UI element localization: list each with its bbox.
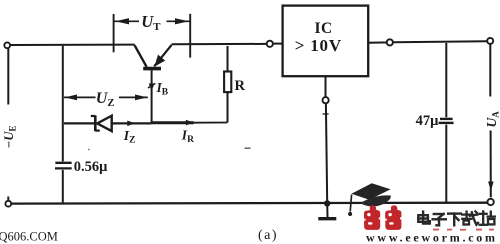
transistor Q1 collector lead [135,45,147,67]
logo graduation cap board [351,183,390,200]
svg-text:www.eeworm.com: www.eeworm.com [366,231,498,244]
node terminal right bottom [487,199,493,205]
dimension UZ right arrowhead [135,95,148,101]
speck artifact dash [245,147,251,149]
svg-text:(a): (a) [258,228,278,243]
wire dropper to zener and C1 [62,46,64,162]
transistor Q1 emitter arrow [154,55,165,67]
wire base node to resistor (thick) [152,121,194,124]
node input terminal left top [4,42,10,48]
current arrow down on right rail [488,182,494,192]
op-amp U1 IC regulator box [283,6,369,77]
current arrow IB cross tick [148,83,155,88]
wire zener line left [64,122,95,124]
logo graduation cap brim [360,195,391,206]
svg-text:UT: UT [141,12,161,33]
ground bar [318,217,336,220]
dimension UZ line [64,96,96,98]
node junction dot on bottom rail [324,200,330,206]
wire to resistor bottom [194,122,228,124]
node IC ground pin terminal [323,97,329,103]
logo text zhan (station) [480,211,495,224]
wire left rail upper [7,48,9,105]
svg-text:0.56μ: 0.56μ [74,159,108,175]
capacitor C1 0.56u plates [55,163,72,169]
transistor Q1 base bar [143,67,161,71]
diode D1 zener cathode bar [94,115,97,131]
svg-text:> 10V: > 10V [295,36,342,55]
wire base lead [151,70,153,122]
svg-text:R: R [235,78,246,94]
logo text dian (electric) [418,212,430,224]
logo cap tassel [350,195,351,212]
dimension UT left arrowhead [115,18,129,24]
diode D1 zener bottom hook [95,130,100,132]
svg-text:−UE: −UE [2,125,18,148]
dimension UZ left arrowhead [65,95,77,101]
wire resistor upper lead [227,46,229,72]
svg-text:IB: IB [156,80,169,98]
dimension UT line [114,20,139,22]
dimension UT left tick [113,14,115,52]
current arrow IR [186,120,194,126]
dimension UT right tick [189,14,191,58]
node terminal right top [487,38,493,44]
speck artifact dot [88,149,90,151]
logo text zai (load) [462,211,478,224]
transistor Q1 emitter lead [154,45,171,66]
tick on ground pin wire [323,113,329,115]
logo cap tassel ball [348,212,352,216]
logo bug character 2 [385,205,402,230]
wire top rail left segment [10,44,134,46]
current arrow IB [149,84,155,92]
logo red underline dashes [433,229,494,231]
wire right rail lower [490,131,492,198]
wire right rail upper [489,44,491,97]
wire C1 lower lead [62,170,64,203]
ground stub [326,203,328,217]
wire capacitor C2 lower lead [445,125,447,203]
wire bottom rail [11,202,487,205]
diode D1 zener top hook [91,115,96,117]
node IC output terminal [387,39,393,45]
logo text zi (child) [433,214,446,225]
wire capacitor C2 upper lead [445,43,447,117]
wire IC input stub [273,43,282,45]
node IC input terminal [267,41,273,47]
logo text xia (down) [448,214,461,226]
svg-text:IR: IR [181,127,194,145]
wire left rail lower stub [7,197,9,201]
current arrow IZ [127,121,135,127]
wire zener line mid [112,122,152,124]
wire resistor lower lead [227,92,229,122]
diode D1 triangle [97,116,112,131]
capacitor C2 47u plates [439,119,454,123]
dimension UT right arrowhead [175,18,189,24]
wire top rail right segment [393,40,487,43]
logo bug character 1 [364,205,381,230]
svg-text:IZ: IZ [123,128,136,146]
resistor R body [224,72,231,93]
svg-text:UA: UA [484,111,500,128]
svg-text:UZ: UZ [96,90,115,109]
wire IC ground pin upper [325,76,327,97]
wire IC ground pin lower [326,104,327,203]
node terminal left bottom [5,201,11,207]
wire IC output stub [368,42,386,44]
svg-text:Q606.COM: Q606.COM [0,229,58,243]
wire top rail emitter to IC [172,43,267,45]
svg-text:47μ: 47μ [416,113,440,129]
svg-text:IC: IC [314,20,332,37]
